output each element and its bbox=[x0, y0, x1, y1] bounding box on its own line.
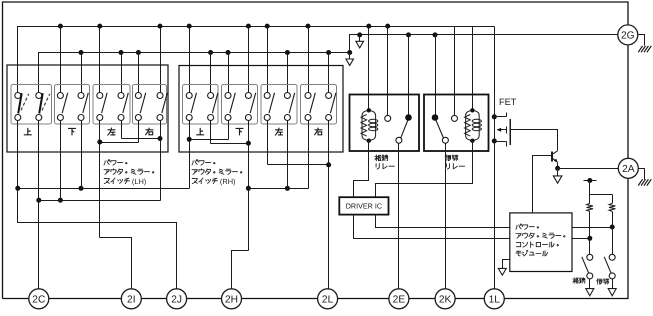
switch contact S3a (LH left pole1) bbox=[97, 93, 107, 121]
wire RH left pole2 bottom bbox=[287, 121, 289, 189]
switch contact S4b (LH right pole2) bbox=[157, 93, 167, 121]
ground at 2G bbox=[638, 35, 652, 53]
wire bus B1 (top supply bus) bbox=[18, 27, 495, 93]
relay K2 moving contact and blade bbox=[436, 120, 448, 143]
svg-text:1L: 1L bbox=[489, 295, 501, 306]
relay K2 coil bbox=[465, 108, 482, 143]
arrow below transistor emitter bbox=[553, 169, 562, 184]
connector terminal 2L bbox=[318, 289, 338, 309]
transistor Q2 (NPN) bbox=[552, 151, 558, 169]
connector terminal 2H bbox=[222, 289, 242, 309]
switch contact S7a (RH left pole1) bbox=[264, 93, 274, 121]
switch contact S8b (RH right pole2) bbox=[326, 93, 336, 121]
svg-text:2C: 2C bbox=[32, 295, 45, 306]
wire LH down pole1 bottom to net C bbox=[58, 121, 63, 203]
wire module to node R2 (upper right) bbox=[573, 225, 615, 230]
wire RH up pole2 + RH down pole2 joined bbox=[211, 121, 251, 251]
switch contact S1b (LH up pole2, pressed) bbox=[36, 93, 50, 121]
bus B1 taps to switch poles bbox=[58, 24, 311, 93]
switch unit frame LH down bbox=[55, 85, 90, 125]
power outer mirror switch (LH) box bbox=[7, 65, 168, 152]
wire net A: LH left pole1 + LH right pole1 bbox=[97, 121, 138, 238]
switch contact S8a (RH right pole1) bbox=[305, 93, 315, 121]
connector terminal 2I bbox=[121, 289, 141, 309]
label retract bbox=[573, 278, 585, 284]
switch contact S1a (LH up pole1, pressed) bbox=[15, 93, 29, 121]
bus B2 taps to switch poles bbox=[79, 50, 332, 93]
driver IC U1 box bbox=[339, 197, 388, 214]
switch unit frame RH down bbox=[222, 85, 258, 125]
svg-text:2E: 2E bbox=[393, 295, 406, 306]
svg-text:2A: 2A bbox=[622, 164, 635, 175]
wire bus B1 to FET and terminal 1L bbox=[494, 27, 496, 290]
wire LH up pole1 bottom to net J (line to 2J) bbox=[17, 121, 19, 189]
switch contact S4a (LH right pole1) bbox=[135, 93, 145, 121]
power outer mirror control module box bbox=[510, 213, 572, 272]
arrow below retract-sense switch bbox=[586, 279, 594, 296]
wire net B: LH left pole2 + LH right pole2 bbox=[122, 121, 163, 201]
switch contact S6a (RH down pole1) bbox=[225, 93, 235, 121]
label right bbox=[146, 128, 153, 135]
label power outer mirror switch (LH) bbox=[104, 160, 154, 187]
wire relay K2 contact to terminal 2K bbox=[445, 144, 447, 290]
switch unit frame RH up bbox=[183, 85, 219, 125]
wire net H to terminal 2H bbox=[232, 251, 249, 290]
label up bbox=[24, 128, 31, 135]
wire net A to terminal 2I bbox=[100, 238, 132, 290]
switch contact S2a (LH down pole1) bbox=[57, 93, 67, 121]
switch contact S6b (RH down pole2) bbox=[245, 93, 255, 121]
power outer mirror switch (RH) box bbox=[179, 66, 343, 153]
arrow below return-sense switch bbox=[608, 279, 616, 296]
wire driver IC pin to module (upper) bbox=[376, 215, 510, 228]
connector terminal 2C bbox=[29, 289, 49, 309]
label up bbox=[197, 128, 204, 135]
label left bbox=[275, 128, 282, 135]
switch contact S7b (RH left pole2) bbox=[284, 93, 294, 121]
switch contact S5b (RH up pole2) bbox=[208, 93, 218, 121]
label down bbox=[236, 128, 243, 135]
wire 2G line to relay K1 common bbox=[406, 32, 411, 115]
switch contact return-sense bbox=[604, 254, 615, 279]
svg-text:DRIVER IC: DRIVER IC bbox=[346, 202, 382, 211]
svg-text:2H: 2H bbox=[225, 295, 238, 306]
switch contact retract-sense bbox=[582, 254, 593, 279]
wire FET gate to transistor collector bbox=[511, 130, 558, 151]
svg-text:2J: 2J bbox=[171, 295, 182, 306]
wire bus B1 to relay K1 contact bbox=[385, 24, 390, 116]
wire LH up pole2 bottom to terminal 2C bbox=[36, 121, 41, 290]
wire 2G line to relay K2 common bbox=[433, 32, 438, 115]
switch unit frame LH up bbox=[11, 85, 52, 125]
svg-text:2L: 2L bbox=[322, 295, 334, 306]
resistor R1 bbox=[587, 181, 593, 255]
connector terminal 2K bbox=[435, 289, 455, 309]
relay K2 NC contact bbox=[452, 115, 458, 121]
switch unit frame RH right bbox=[301, 85, 337, 125]
switch unit frame RH left bbox=[261, 85, 297, 125]
svg-text:2I: 2I bbox=[127, 295, 136, 306]
wire to terminal 2G bbox=[350, 35, 618, 53]
relay K2 (return relay) box bbox=[424, 95, 489, 152]
relay K1 moving contact and blade bbox=[396, 120, 408, 143]
svg-text:(RH): (RH) bbox=[220, 177, 236, 186]
switch unit frame LH right bbox=[133, 85, 167, 125]
svg-text:(LH): (LH) bbox=[132, 177, 146, 186]
arrow below bus B2 bbox=[346, 50, 354, 65]
switch contact S5a (RH up pole1) bbox=[186, 93, 196, 121]
wire net J horizontal bbox=[15, 186, 189, 191]
wire bus B1 to relay K1 coil bbox=[366, 24, 371, 109]
svg-text:2K: 2K bbox=[439, 295, 452, 306]
connector terminal 2G bbox=[618, 25, 638, 45]
wire bus B1 to relay K2 contact bbox=[454, 27, 456, 116]
connector terminal 2A bbox=[618, 158, 638, 178]
ground at 2A bbox=[638, 169, 651, 186]
wire bus B1 to relay K2 coil bbox=[472, 27, 474, 109]
node T-bar terminal bbox=[584, 178, 597, 183]
wire net J to terminal 2J bbox=[18, 189, 177, 290]
wire relay K1 contact to terminal 2E bbox=[398, 144, 400, 290]
connector terminal 2E bbox=[389, 289, 409, 309]
wire bus B2 (second supply bus) bbox=[39, 53, 349, 93]
label power outer mirror switch (RH) bbox=[192, 160, 242, 187]
arrow at module lower-left bbox=[498, 260, 509, 276]
relay K1 common stud bbox=[405, 114, 412, 121]
relay K2 common stud bbox=[432, 114, 439, 121]
switch unit frame LH left bbox=[93, 85, 130, 125]
label return bbox=[597, 279, 609, 285]
relay K1 (retract relay) box bbox=[350, 95, 420, 152]
wire RH up pole1 + RH down pole1 joined bbox=[187, 121, 229, 189]
wire RH left pole1 + RH right pole2 to terminal 2L bbox=[268, 121, 332, 290]
svg-text:FET: FET bbox=[499, 97, 517, 107]
wire transistor emitter to terminal 2A bbox=[555, 166, 618, 171]
relay K1 coil bbox=[361, 108, 378, 143]
switch contact S3b (LH left pole2) bbox=[118, 93, 128, 121]
switch contact S2b (LH down pole2) bbox=[78, 93, 88, 121]
label down bbox=[68, 128, 75, 135]
transistor FET Q1 bbox=[492, 113, 510, 147]
label return relay bbox=[445, 155, 464, 169]
label left bbox=[108, 128, 115, 135]
wire driver IC pin to module (lower) bbox=[354, 215, 510, 239]
connector terminal 2J bbox=[167, 289, 187, 309]
wire LH down pole2 bottom to net J bbox=[81, 121, 83, 189]
label right bbox=[315, 128, 322, 135]
wire relay K2 coil to driver IC bbox=[376, 141, 473, 198]
resistor R2 bbox=[590, 195, 616, 255]
label power outer mirror control module bbox=[516, 224, 565, 256]
wire net H horizontal bbox=[246, 186, 309, 191]
arrow below 2G wire bbox=[356, 32, 364, 48]
svg-text:2G: 2G bbox=[621, 31, 635, 42]
connector terminal 1L bbox=[484, 289, 504, 309]
wire transistor base to module bbox=[533, 156, 552, 213]
label retract relay bbox=[375, 155, 394, 169]
wire module to node R1 (lower right) bbox=[573, 236, 593, 241]
relay K1 NC contact bbox=[385, 115, 391, 121]
wire RH right pole1 bottom bbox=[308, 121, 310, 189]
wire net C horizontal (to 2C) bbox=[39, 200, 161, 202]
wire relay K1 coil to driver IC bbox=[354, 141, 369, 198]
